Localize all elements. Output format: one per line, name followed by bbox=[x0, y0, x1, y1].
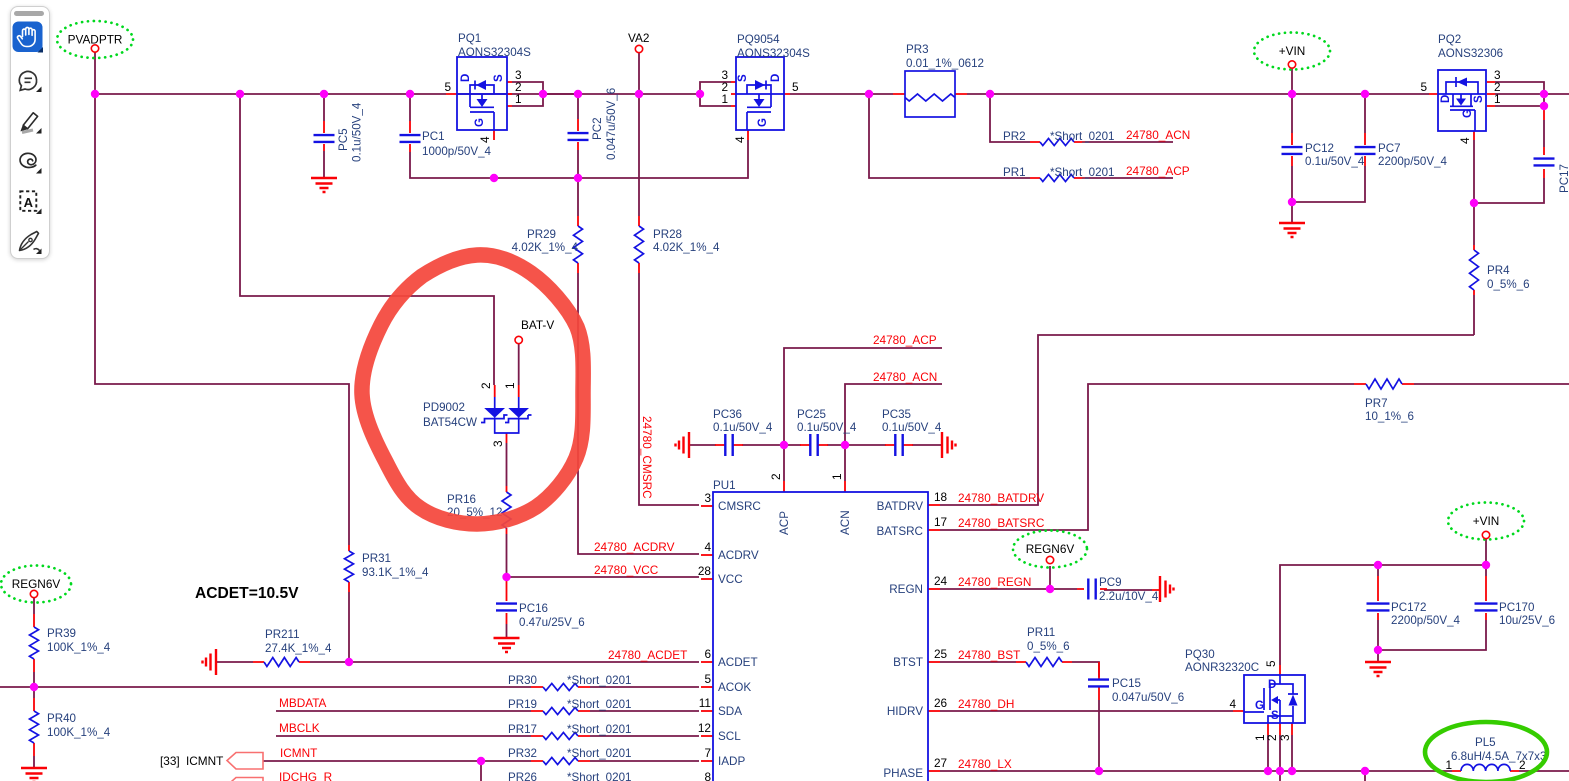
wire ICMNT row bbox=[263, 761, 699, 781]
transistor PQ1 AONS32304S bbox=[457, 57, 507, 130]
svg-text:5: 5 bbox=[444, 80, 451, 94]
svg-text:ICMNT: ICMNT bbox=[186, 754, 223, 768]
resistor PR3 (sense, boxed) bbox=[905, 71, 955, 117]
wire BAT-V to diode pin1 bbox=[518, 343, 520, 385]
svg-text:ACDET=10.5V: ACDET=10.5V bbox=[195, 585, 299, 602]
svg-text:BATSRC: BATSRC bbox=[876, 525, 923, 538]
capacitor PC9 bbox=[1088, 579, 1095, 600]
junction dots on adapter bus bbox=[91, 90, 99, 98]
resistor PR1 bbox=[1040, 175, 1074, 182]
svg-text:PHASE: PHASE bbox=[883, 767, 923, 780]
svg-text:1: 1 bbox=[515, 92, 522, 106]
capacitor PC172 bbox=[1367, 604, 1390, 611]
svg-text:BAT54CW: BAT54CW bbox=[423, 416, 477, 429]
PL5 highlight ellipse bbox=[1425, 722, 1547, 781]
svg-text:PC35: PC35 bbox=[882, 408, 911, 421]
junction dot PQ2 pin4 / PR4 bbox=[1470, 199, 1478, 207]
ground under PR40 bbox=[21, 768, 47, 781]
capacitor PC1 bbox=[400, 135, 421, 142]
pin stubs red, REGN/PC9 bbox=[1077, 589, 1160, 590]
wire PC16 to ground bbox=[506, 624, 508, 637]
svg-text:4: 4 bbox=[1458, 137, 1472, 144]
svg-text:0_5%_6: 0_5%_6 bbox=[1487, 278, 1530, 291]
svg-text:24780_REGN: 24780_REGN bbox=[958, 575, 1031, 589]
svg-text:*Short_0201: *Short_0201 bbox=[567, 698, 631, 711]
svg-text:1: 1 bbox=[1445, 758, 1452, 772]
wire PQ2 pins 3-2-1 tie bbox=[1495, 82, 1544, 106]
svg-text:1: 1 bbox=[830, 473, 844, 480]
svg-text:*Short_0201: *Short_0201 bbox=[1050, 130, 1114, 143]
svg-text:ACP: ACP bbox=[778, 511, 791, 535]
wire PC17 column bbox=[1474, 120, 1544, 203]
svg-text:24780_BATSRC: 24780_BATSRC bbox=[958, 516, 1045, 530]
tool select-text [A] bbox=[20, 191, 36, 211]
svg-text:0_5%_6: 0_5%_6 bbox=[1027, 640, 1070, 653]
capacitor PC7 bbox=[1355, 147, 1376, 154]
svg-text:24780_BATDRV: 24780_BATDRV bbox=[958, 491, 1044, 505]
svg-text:24780_BST: 24780_BST bbox=[958, 648, 1020, 662]
junction dot REGN row bbox=[1046, 585, 1054, 593]
svg-text:*Short_0201: *Short_0201 bbox=[567, 674, 631, 687]
svg-text:S: S bbox=[493, 74, 505, 82]
off-page connector IDCHG_R (clipped) bbox=[227, 778, 263, 781]
svg-text:24780_ACDRV: 24780_ACDRV bbox=[594, 540, 675, 554]
svg-text:1: 1 bbox=[503, 382, 517, 389]
capacitor PC5 bbox=[314, 135, 335, 142]
transistor PQ30 AONR32320C bbox=[1244, 675, 1305, 723]
svg-text:PR17: PR17 bbox=[508, 723, 537, 736]
svg-text:ACDRV: ACDRV bbox=[718, 549, 759, 562]
resistor PR2 bbox=[1040, 139, 1074, 146]
svg-text:3: 3 bbox=[1278, 734, 1292, 741]
svg-text:MBCLK: MBCLK bbox=[279, 721, 320, 735]
junction dots CM caps row bbox=[780, 441, 788, 449]
svg-text:G: G bbox=[1462, 109, 1474, 118]
capacitor PC17 bbox=[1534, 159, 1555, 166]
svg-text:IADP: IADP bbox=[718, 755, 745, 768]
wire MBCLK row bbox=[276, 735, 699, 737]
svg-text:PR28: PR28 bbox=[653, 228, 682, 241]
node +VIN flag (lower right) bbox=[1448, 503, 1524, 540]
svg-text:ICMNT: ICMNT bbox=[280, 746, 317, 760]
svg-text:AONS32306: AONS32306 bbox=[1438, 47, 1503, 60]
svg-text:G: G bbox=[757, 118, 769, 127]
svg-text:2200p/50V_4: 2200p/50V_4 bbox=[1378, 155, 1448, 168]
inductor PL5 bbox=[1461, 764, 1510, 771]
svg-text:PC17: PC17 bbox=[1558, 164, 1569, 193]
wire LX drops below bbox=[1280, 735, 1365, 781]
wire PC1/PC2/PQ gates bottom rail y=178 bbox=[410, 140, 748, 178]
resistor PR16 bbox=[502, 492, 511, 528]
resistor PR30 bbox=[543, 684, 578, 691]
wire BTST row through PR11 to PC15 bbox=[940, 662, 1099, 677]
svg-text:1: 1 bbox=[721, 92, 728, 106]
svg-text:G: G bbox=[1255, 700, 1264, 712]
svg-text:PR3: PR3 bbox=[906, 43, 929, 56]
svg-text:PQ1: PQ1 bbox=[458, 32, 481, 45]
junction dot PC12/PC7 tie bbox=[1288, 198, 1296, 206]
wire HIDRV row to PQ30 gate bbox=[940, 710, 1233, 712]
wire PQ9054 pins 3-2-1 tie bbox=[700, 82, 731, 106]
svg-text:+VIN: +VIN bbox=[1279, 44, 1306, 58]
ground under PC12 bbox=[1279, 223, 1305, 237]
capacitor PC35 bbox=[895, 434, 902, 456]
svg-text:11: 11 bbox=[699, 696, 711, 710]
svg-text:ACDET: ACDET bbox=[718, 656, 758, 669]
ground under PC16 bbox=[494, 638, 520, 652]
svg-text:27.4K_1%_4: 27.4K_1%_4 bbox=[265, 642, 332, 655]
svg-text:2: 2 bbox=[1519, 758, 1526, 772]
wire PC172 lead bbox=[1377, 565, 1379, 662]
wire bus to BAT54CW pin2 bbox=[240, 94, 494, 385]
junction dot ICMNT row bbox=[477, 757, 485, 765]
svg-text:[33]: [33] bbox=[160, 754, 180, 768]
transistor PQ9054 AONS32304S bbox=[736, 57, 784, 130]
svg-text:PQ2: PQ2 bbox=[1438, 33, 1461, 46]
svg-text:HIDRV: HIDRV bbox=[887, 705, 923, 718]
svg-text:2: 2 bbox=[479, 382, 493, 389]
svg-text:24780_ACN: 24780_ACN bbox=[873, 370, 937, 384]
svg-text:PC16: PC16 bbox=[519, 602, 548, 615]
svg-text:6.8uH/4.5A_7x7x3: 6.8uH/4.5A_7x7x3 bbox=[1451, 750, 1546, 763]
wire PHASE/LX row bbox=[940, 770, 1569, 772]
tool comment bbox=[19, 71, 36, 90]
svg-text:SDA: SDA bbox=[718, 705, 742, 718]
capacitor PC12 bbox=[1282, 147, 1303, 154]
svg-text:1000p/50V_4: 1000p/50V_4 bbox=[422, 145, 492, 158]
ground left of PC36 bbox=[676, 432, 690, 458]
capacitor PC16 bbox=[496, 604, 517, 611]
svg-text:PR1: PR1 bbox=[1003, 166, 1026, 179]
svg-text:PC7: PC7 bbox=[1378, 142, 1401, 155]
pin stubs red, CM caps row bbox=[715, 444, 913, 446]
svg-text:VCC: VCC bbox=[718, 573, 743, 586]
svg-text:PC36: PC36 bbox=[713, 408, 742, 421]
svg-text:5: 5 bbox=[1420, 80, 1427, 94]
ground right of PC35 bbox=[942, 432, 956, 458]
svg-text:24780_VCC: 24780_VCC bbox=[594, 563, 659, 577]
pin stubs red, adapter bus components bbox=[446, 82, 512, 140]
toolbar panel bbox=[10, 6, 50, 259]
svg-text:A: A bbox=[24, 195, 34, 210]
diode PD9002 BAT54CW bbox=[481, 397, 532, 433]
wire PC5 lead bbox=[323, 94, 325, 178]
capacitor PC170 bbox=[1475, 604, 1498, 611]
svg-text:PC5: PC5 bbox=[337, 128, 350, 151]
svg-text:D: D bbox=[460, 74, 472, 82]
svg-text:PR19: PR19 bbox=[508, 698, 537, 711]
junction dots PQ2 tie bbox=[1540, 90, 1548, 98]
pin stubs red, PC172 PC170 PC16 bbox=[1378, 576, 1486, 620]
wire PVADPTR drop to PR31 bbox=[95, 51, 349, 662]
resistor PR31 bbox=[345, 551, 354, 582]
junction dot ACDET/PR31 bbox=[345, 658, 353, 666]
svg-text:27: 27 bbox=[934, 756, 947, 770]
resistor PR29 bbox=[574, 226, 583, 263]
svg-text:BTST: BTST bbox=[893, 656, 923, 669]
wire PC15 bottom lead bbox=[1098, 700, 1100, 771]
svg-text:2.2u/10V_4: 2.2u/10V_4 bbox=[1099, 590, 1159, 603]
svg-text:93.1K_1%_4: 93.1K_1%_4 bbox=[362, 566, 429, 579]
svg-text:PR40: PR40 bbox=[47, 712, 76, 725]
svg-text:PC25: PC25 bbox=[797, 408, 826, 421]
toolbar drag handle bbox=[14, 11, 44, 16]
svg-text:4.02K_1%_4: 4.02K_1%_4 bbox=[512, 241, 579, 254]
svg-text:12: 12 bbox=[698, 721, 711, 735]
svg-text:PR2: PR2 bbox=[1003, 130, 1026, 143]
svg-text:2200p/50V_4: 2200p/50V_4 bbox=[1391, 614, 1461, 627]
wire PQ1 pins 3-2-1 tie bbox=[512, 82, 578, 106]
svg-text:PC12: PC12 bbox=[1305, 142, 1334, 155]
junction dot PC172 ground tie bbox=[1374, 646, 1382, 654]
svg-text:S: S bbox=[1473, 95, 1485, 103]
capacitor PC25 bbox=[810, 434, 817, 456]
svg-text:PD9002: PD9002 bbox=[423, 401, 465, 414]
wire PQ30 drain riser to +VIN rail bbox=[1280, 538, 1486, 665]
svg-text:PR30: PR30 bbox=[508, 674, 537, 687]
svg-text:24780_ACN: 24780_ACN bbox=[1126, 128, 1190, 142]
ground left of PR211 bbox=[203, 649, 217, 675]
svg-text:2: 2 bbox=[769, 473, 783, 480]
wire PR29 column to ACDRV pin4 bbox=[578, 178, 699, 554]
svg-text:CMSRC: CMSRC bbox=[718, 500, 761, 513]
svg-text:PR11: PR11 bbox=[1027, 626, 1055, 639]
svg-text:25: 25 bbox=[934, 647, 948, 661]
svg-text:24780_ACP: 24780_ACP bbox=[1126, 164, 1190, 178]
svg-text:24780_LX: 24780_LX bbox=[958, 757, 1012, 771]
resistor PR17 bbox=[543, 733, 578, 740]
transistor PQ2 AONS32306 bbox=[1438, 70, 1486, 131]
svg-text:0.1u/50V_4: 0.1u/50V_4 bbox=[713, 421, 773, 434]
svg-text:PR39: PR39 bbox=[47, 627, 76, 640]
svg-text:PR7: PR7 bbox=[1365, 397, 1388, 410]
pin stubs red, PQ30 bbox=[1233, 665, 1292, 735]
svg-text:7: 7 bbox=[704, 746, 711, 760]
wire ACOK/PR30 row from left edge bbox=[0, 686, 699, 688]
svg-text:100K_1%_4: 100K_1%_4 bbox=[47, 726, 111, 739]
wire PC7 leads and bottom tie bbox=[1292, 94, 1365, 202]
svg-text:PL5: PL5 bbox=[1475, 736, 1496, 749]
wire ACDET row bbox=[216, 661, 699, 663]
node REGN6V flag (mid) bbox=[1013, 531, 1087, 568]
op-amp U1 : charger IC PU1 box bbox=[713, 492, 928, 781]
svg-text:4: 4 bbox=[704, 540, 711, 554]
pin stubs red, short-resistor rows bbox=[531, 686, 590, 688]
svg-text:28: 28 bbox=[698, 564, 712, 578]
resistor PR19 bbox=[543, 708, 578, 715]
svg-text:24: 24 bbox=[934, 574, 948, 588]
resistor PR11 bbox=[1026, 658, 1062, 667]
svg-text:AONR32320C: AONR32320C bbox=[1185, 661, 1259, 674]
svg-text:PR31: PR31 bbox=[362, 552, 391, 565]
svg-text:1: 1 bbox=[1494, 92, 1501, 106]
tool hand (active) bbox=[13, 22, 44, 53]
wire PR2 branch bbox=[990, 94, 1173, 142]
svg-text:S: S bbox=[1271, 710, 1279, 722]
wire PQ2 pin4 / PR4 column bbox=[1473, 140, 1475, 335]
wire +VIN / PC12 bbox=[1291, 68, 1293, 223]
node PVADPTR flag bbox=[57, 21, 133, 58]
wire ACP vertical to pin 2 bbox=[784, 348, 942, 481]
wire REGN6V-mid drop bbox=[1049, 566, 1051, 589]
node REGN6V flag (left) bbox=[1, 566, 71, 603]
capacitor PC2 bbox=[568, 133, 589, 140]
tool lasso bbox=[20, 153, 36, 167]
svg-text:24780_ACP: 24780_ACP bbox=[873, 333, 937, 347]
junction dots bottom rail y178 bbox=[490, 174, 498, 182]
svg-text:24780_CMSRC: 24780_CMSRC bbox=[640, 416, 654, 499]
svg-text:PR211: PR211 bbox=[265, 628, 300, 641]
junction dots LX row bbox=[1095, 767, 1103, 775]
svg-text:6: 6 bbox=[704, 647, 711, 661]
svg-text:PC1: PC1 bbox=[422, 130, 445, 143]
svg-text:PR16: PR16 bbox=[447, 493, 476, 506]
svg-text:26: 26 bbox=[934, 696, 948, 710]
svg-text:PQ9054: PQ9054 bbox=[737, 33, 780, 46]
svg-text:10u/25V_6: 10u/25V_6 bbox=[1499, 614, 1555, 627]
svg-text:PR4: PR4 bbox=[1487, 264, 1510, 277]
wire PC170 lead / bottom tie bbox=[1378, 565, 1486, 650]
pin stubs red, PR11/PC15 bbox=[1016, 662, 1099, 700]
svg-text:+VIN: +VIN bbox=[1473, 514, 1500, 528]
wire PC2 lead bbox=[577, 94, 579, 178]
tool fountain pen bbox=[20, 232, 40, 251]
svg-text:PC170: PC170 bbox=[1499, 601, 1534, 614]
junction dot VCC/PC16 bbox=[502, 573, 510, 581]
resistor PR39 bbox=[30, 627, 39, 659]
wire PQ30 source drops bbox=[1268, 735, 1292, 771]
svg-text:0.47u/25V_6: 0.47u/25V_6 bbox=[519, 616, 585, 629]
svg-text:PR26: PR26 bbox=[508, 771, 537, 781]
svg-text:18: 18 bbox=[934, 490, 948, 504]
resistor PR7 bbox=[1366, 379, 1402, 389]
capacitor PC15 bbox=[1088, 680, 1109, 687]
svg-text:PC2: PC2 bbox=[591, 117, 604, 140]
svg-text:REGN6V: REGN6V bbox=[1026, 542, 1075, 556]
svg-text:*Short_0201: *Short_0201 bbox=[567, 723, 631, 736]
svg-text:D: D bbox=[1440, 95, 1452, 103]
wire MBDATA row bbox=[276, 710, 699, 712]
wire CM caps row y=445 bbox=[689, 444, 942, 446]
pin stubs red, PU1 top bbox=[784, 481, 845, 492]
tool highlighter bbox=[21, 113, 37, 133]
svg-text:0.01_1%_0612: 0.01_1%_0612 bbox=[906, 57, 984, 70]
svg-text:3: 3 bbox=[491, 440, 505, 447]
wire REGN row to PC9 bbox=[940, 589, 1152, 590]
resistor PR32 bbox=[543, 758, 578, 765]
svg-text:5: 5 bbox=[792, 80, 799, 94]
svg-text:0.047u/50V_6: 0.047u/50V_6 bbox=[1112, 691, 1184, 704]
wire main adapter bus y=94 bbox=[95, 93, 701, 95]
resistor PR4 bbox=[1470, 250, 1479, 290]
svg-text:D: D bbox=[1268, 679, 1276, 691]
svg-text:24780_ACDET: 24780_ACDET bbox=[608, 648, 687, 662]
pin stubs red, BAT54CW and PR16 bbox=[495, 385, 519, 534]
wire BATSRC riser to PR7 bbox=[940, 384, 1569, 530]
pin stubs red, PU1 left bbox=[701, 505, 713, 507]
capacitor PC36 bbox=[725, 434, 732, 456]
resistor PR211 bbox=[264, 658, 299, 667]
svg-text:PQ30: PQ30 bbox=[1185, 648, 1215, 661]
wire ACN vertical to pin 1 bbox=[845, 384, 942, 481]
svg-text:AONS32304S: AONS32304S bbox=[737, 47, 810, 60]
svg-text:REGN: REGN bbox=[889, 583, 923, 596]
junction dot REGN6V divider bbox=[30, 683, 38, 691]
svg-text:BATDRV: BATDRV bbox=[877, 500, 924, 513]
svg-text:0.1u/50V_4: 0.1u/50V_4 bbox=[1305, 155, 1365, 168]
svg-text:ACOK: ACOK bbox=[718, 681, 751, 694]
svg-text:*Short_0201: *Short_0201 bbox=[1050, 166, 1114, 179]
wire REGN6V-left divider column bbox=[33, 597, 35, 768]
svg-text:REGN6V: REGN6V bbox=[12, 577, 61, 591]
svg-text:5: 5 bbox=[704, 672, 711, 686]
svg-text:24780_DH: 24780_DH bbox=[958, 697, 1014, 711]
svg-text:D: D bbox=[770, 74, 782, 82]
svg-text:10_1%_6: 10_1%_6 bbox=[1365, 410, 1414, 423]
resistor PR40 bbox=[30, 711, 39, 743]
junction dots +VIN rail bbox=[1374, 561, 1382, 569]
svg-text:PR29: PR29 bbox=[527, 228, 556, 241]
ground right of PC9 bbox=[1160, 576, 1174, 602]
svg-text:*Short_0201: *Short_0201 bbox=[567, 771, 631, 781]
svg-text:3: 3 bbox=[704, 491, 711, 505]
svg-text:17: 17 bbox=[934, 515, 947, 529]
hand-drawn red circle annotation bbox=[362, 255, 583, 524]
svg-text:IDCHG_R: IDCHG_R bbox=[279, 770, 332, 781]
svg-text:PU1: PU1 bbox=[713, 479, 736, 492]
svg-text:0.047u/50V_6: 0.047u/50V_6 bbox=[605, 88, 618, 160]
svg-text:100K_1%_4: 100K_1%_4 bbox=[47, 641, 111, 654]
wire diode pin3 through PR16 to VCC bbox=[506, 443, 508, 577]
wire BATDRV riser bbox=[940, 335, 1474, 505]
pin stubs red, PU1 right bbox=[928, 504, 940, 506]
ground under PC172 bbox=[1365, 662, 1391, 676]
svg-text:4.02K_1%_4: 4.02K_1%_4 bbox=[653, 241, 720, 254]
pin stubs red, PL5 bbox=[1452, 770, 1519, 772]
wire VA2 column through PR28 to CMSRC pin3 bbox=[639, 52, 699, 505]
svg-text:5: 5 bbox=[1264, 660, 1278, 667]
svg-text:PR32: PR32 bbox=[508, 747, 537, 760]
svg-text:VA2: VA2 bbox=[628, 31, 649, 45]
svg-text:ACN: ACN bbox=[839, 510, 852, 535]
svg-text:PC172: PC172 bbox=[1391, 601, 1426, 614]
resistor PR28 bbox=[635, 226, 644, 263]
wire VCC row bbox=[507, 576, 700, 578]
svg-text:4: 4 bbox=[733, 136, 747, 143]
wire PC1 lead bbox=[409, 94, 411, 121]
svg-text:0.1u/50V_4: 0.1u/50V_4 bbox=[882, 421, 942, 434]
svg-text:*Short_0201: *Short_0201 bbox=[567, 747, 631, 760]
svg-text:4: 4 bbox=[478, 136, 492, 143]
svg-text:2: 2 bbox=[1265, 734, 1279, 741]
svg-text:0.1u/50V_4: 0.1u/50V_4 bbox=[797, 421, 857, 434]
svg-text:G: G bbox=[474, 118, 486, 127]
svg-text:0.1u/50V_4: 0.1u/50V_4 bbox=[351, 102, 364, 162]
svg-text:AONS32304S: AONS32304S bbox=[458, 46, 531, 59]
svg-text:8: 8 bbox=[704, 770, 711, 781]
svg-text:S: S bbox=[737, 74, 749, 82]
svg-text:PC15: PC15 bbox=[1112, 677, 1141, 690]
ground under PC5 bbox=[311, 178, 337, 192]
svg-text:MBDATA: MBDATA bbox=[279, 696, 327, 710]
svg-text:4: 4 bbox=[1229, 697, 1236, 711]
svg-text:SCL: SCL bbox=[718, 730, 741, 743]
svg-text:PC9: PC9 bbox=[1099, 576, 1122, 589]
node +VIN flag (top) bbox=[1254, 33, 1330, 70]
wire PR1 branch bbox=[869, 94, 1173, 178]
svg-text:BAT-V: BAT-V bbox=[521, 318, 554, 332]
